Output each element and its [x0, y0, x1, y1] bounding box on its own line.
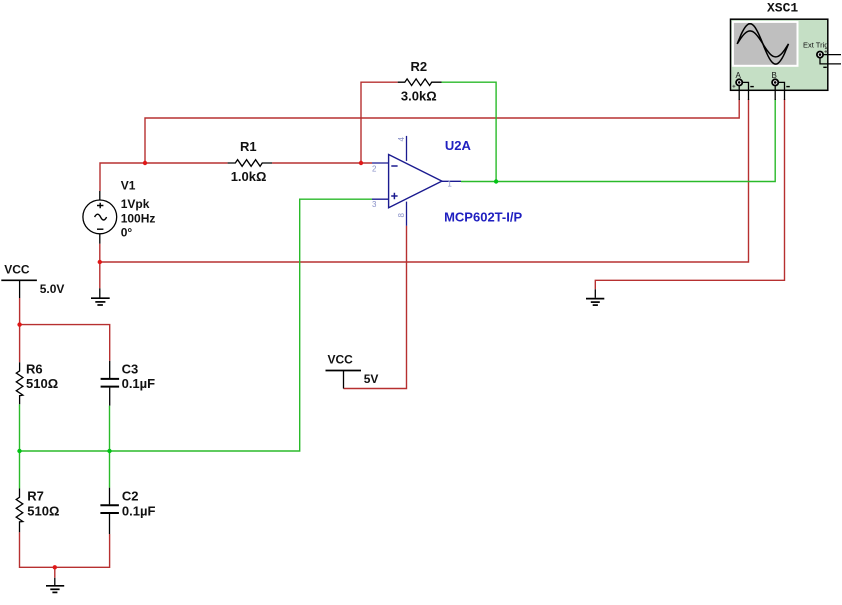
svg-text:B: B [772, 71, 777, 80]
svg-text:0°: 0° [121, 226, 133, 240]
svg-text:5V: 5V [364, 372, 379, 386]
svg-text:C2: C2 [122, 489, 139, 504]
svg-text:Ext Trig: Ext Trig [803, 40, 828, 49]
svg-text:1.0kΩ: 1.0kΩ [231, 169, 267, 184]
svg-text:1Vpk: 1Vpk [121, 197, 150, 211]
svg-text:R6: R6 [26, 361, 43, 376]
svg-text:0.1µF: 0.1µF [122, 504, 156, 519]
svg-text:2: 2 [372, 165, 377, 174]
svg-text:V1: V1 [121, 179, 136, 193]
svg-text:0.1µF: 0.1µF [122, 376, 156, 391]
svg-text:100Hz: 100Hz [121, 212, 156, 226]
svg-text:R1: R1 [240, 139, 257, 154]
svg-text:8: 8 [397, 213, 406, 218]
svg-text:A: A [736, 71, 742, 80]
svg-text:VCC: VCC [328, 353, 354, 367]
svg-text:R2: R2 [411, 59, 428, 74]
svg-text:C3: C3 [122, 361, 139, 376]
svg-text:3.0kΩ: 3.0kΩ [401, 88, 437, 103]
svg-text:1: 1 [447, 180, 452, 189]
svg-text:4: 4 [397, 137, 406, 142]
svg-text:3: 3 [372, 200, 377, 209]
svg-text:510Ω: 510Ω [27, 504, 59, 519]
svg-text:MCP602T-I/P: MCP602T-I/P [444, 210, 522, 225]
svg-text:5.0V: 5.0V [40, 282, 65, 296]
svg-text:XSC1: XSC1 [767, 1, 798, 16]
svg-text:R7: R7 [27, 489, 44, 504]
svg-text:VCC: VCC [4, 263, 30, 277]
svg-text:510Ω: 510Ω [26, 376, 58, 391]
svg-text:U2A: U2A [445, 138, 472, 153]
